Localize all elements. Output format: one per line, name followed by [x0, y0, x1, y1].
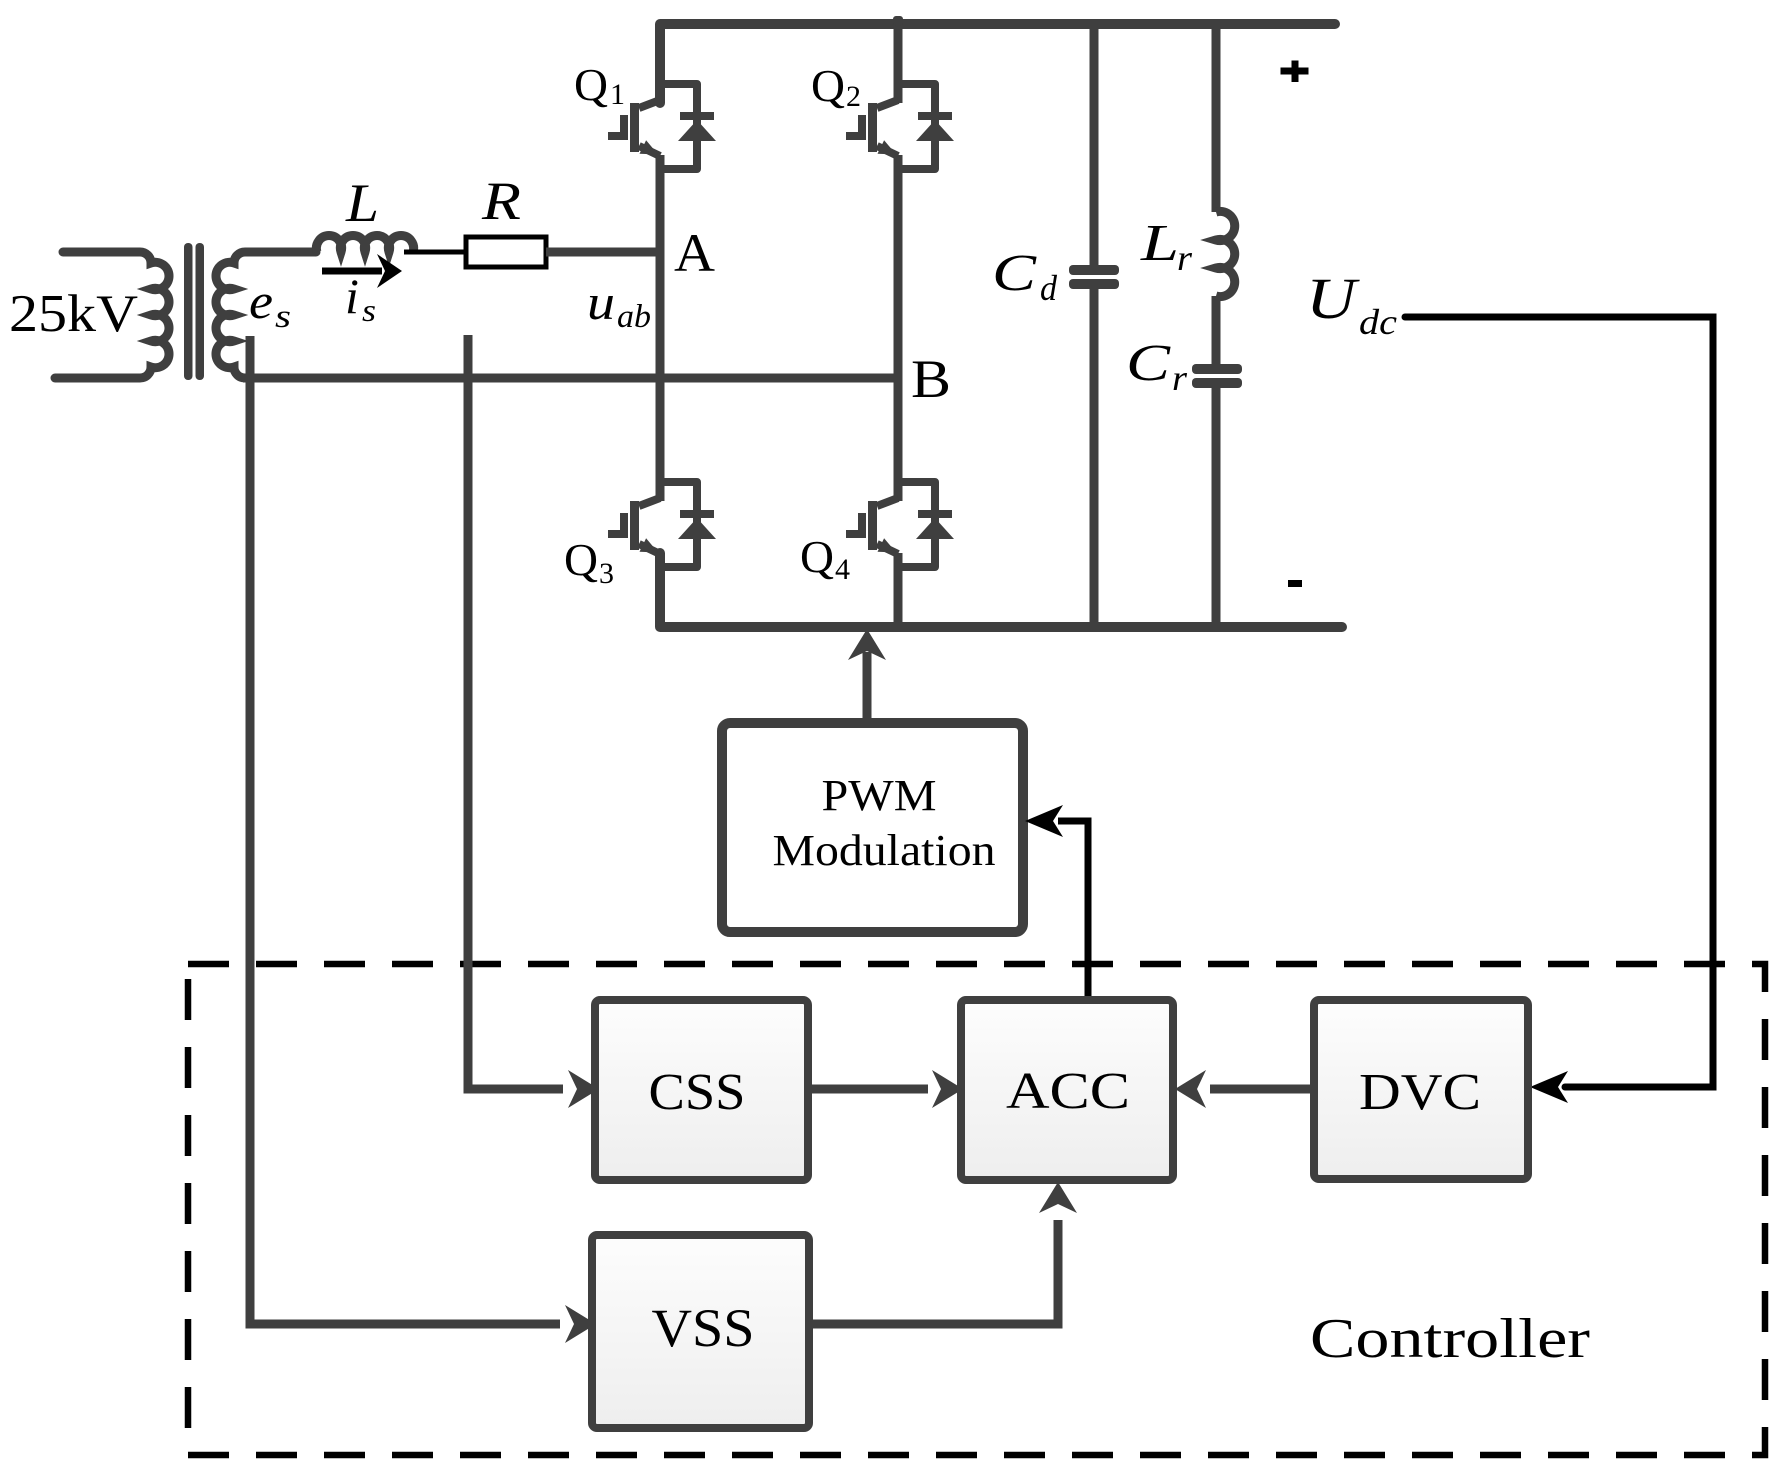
junction dot top bus: [893, 16, 903, 26]
svg-text:Q: Q: [811, 60, 845, 111]
bottom DC bus: [660, 553, 1342, 627]
inductor L: [316, 236, 413, 252]
svg-text:r: r: [1177, 238, 1193, 278]
svg-text:Q: Q: [800, 531, 834, 582]
arrow VSS to ACC: [809, 1220, 1058, 1324]
svg-text:L: L: [1140, 215, 1179, 272]
svg-text:r: r: [1172, 358, 1188, 398]
transformer core: [184, 243, 204, 380]
svg-text:1: 1: [610, 78, 625, 111]
svg-text:d: d: [1040, 268, 1058, 308]
minus terminal label: [1288, 580, 1302, 587]
svg-text:3: 3: [599, 557, 614, 590]
svg-text:e: e: [249, 273, 273, 329]
svg-text:25kV: 25kV: [9, 285, 138, 343]
arrow CSS to ACC: [808, 1085, 928, 1094]
svg-text:DVC: DVC: [1359, 1064, 1481, 1121]
transistor Q2: [846, 84, 954, 169]
plus terminal label: [1281, 61, 1309, 83]
svg-text:s: s: [275, 299, 291, 335]
left bridge leg wires: [656, 155, 665, 501]
wire ACC to PWM: [1058, 821, 1088, 1000]
svg-text:u: u: [587, 274, 615, 330]
svg-text:VSS: VSS: [652, 1298, 755, 1358]
transistor Q3: [608, 482, 716, 567]
transformer primary winding: [55, 252, 169, 378]
block DVC: [1314, 1000, 1528, 1179]
svg-text:CSS: CSS: [649, 1064, 746, 1121]
transformer secondary winding: [216, 252, 316, 378]
wire L to R (thin): [404, 250, 466, 255]
transistor Q4: [846, 482, 954, 567]
svg-text:R: R: [481, 171, 521, 231]
svg-text:PWM: PWM: [822, 771, 937, 820]
svg-text:L: L: [345, 173, 379, 233]
wire i_s sense to CSS: [468, 335, 563, 1089]
svg-text:i: i: [345, 268, 359, 324]
svg-text:ACC: ACC: [1006, 1063, 1130, 1120]
svg-text:B: B: [911, 349, 951, 409]
svg-text:Q: Q: [564, 534, 598, 585]
capacitor Cr: [1192, 364, 1242, 388]
wire R to node A: [546, 248, 660, 257]
svg-text:C: C: [1126, 335, 1172, 392]
transistor Q1: [608, 84, 716, 169]
PWM modulation block: [722, 723, 1023, 932]
wire U_dc feedback to DVC: [1405, 317, 1713, 1087]
resistor R: [466, 237, 546, 267]
svg-text:C: C: [992, 245, 1038, 302]
block VSS: [592, 1235, 809, 1428]
svg-text:Controller: Controller: [1310, 1308, 1590, 1370]
controller dashed box: [188, 964, 1765, 1455]
right bridge leg wires: [894, 24, 903, 627]
current arrow i_s: [322, 254, 402, 288]
inductor Lr: [1216, 24, 1235, 365]
svg-text:4: 4: [835, 553, 850, 586]
svg-text:dc: dc: [1359, 302, 1397, 342]
top DC bus: [660, 24, 1335, 103]
arrow DVC to ACC: [1210, 1085, 1314, 1094]
svg-text:2: 2: [846, 80, 861, 113]
svg-text:s: s: [362, 292, 376, 328]
svg-text:U: U: [1306, 266, 1361, 331]
svg-text:Modulation: Modulation: [773, 826, 996, 875]
wire e_s sense to VSS: [250, 336, 560, 1324]
capacitor Cd: [1090, 24, 1099, 627]
svg-text:Q: Q: [574, 59, 608, 110]
svg-text:A: A: [674, 223, 715, 283]
arrow PWM to bridge: [863, 652, 872, 723]
block ACC: [961, 1000, 1173, 1180]
block CSS: [595, 1000, 808, 1180]
wire secondary bottom to node B: [243, 374, 898, 383]
svg-text:ab: ab: [617, 299, 651, 335]
